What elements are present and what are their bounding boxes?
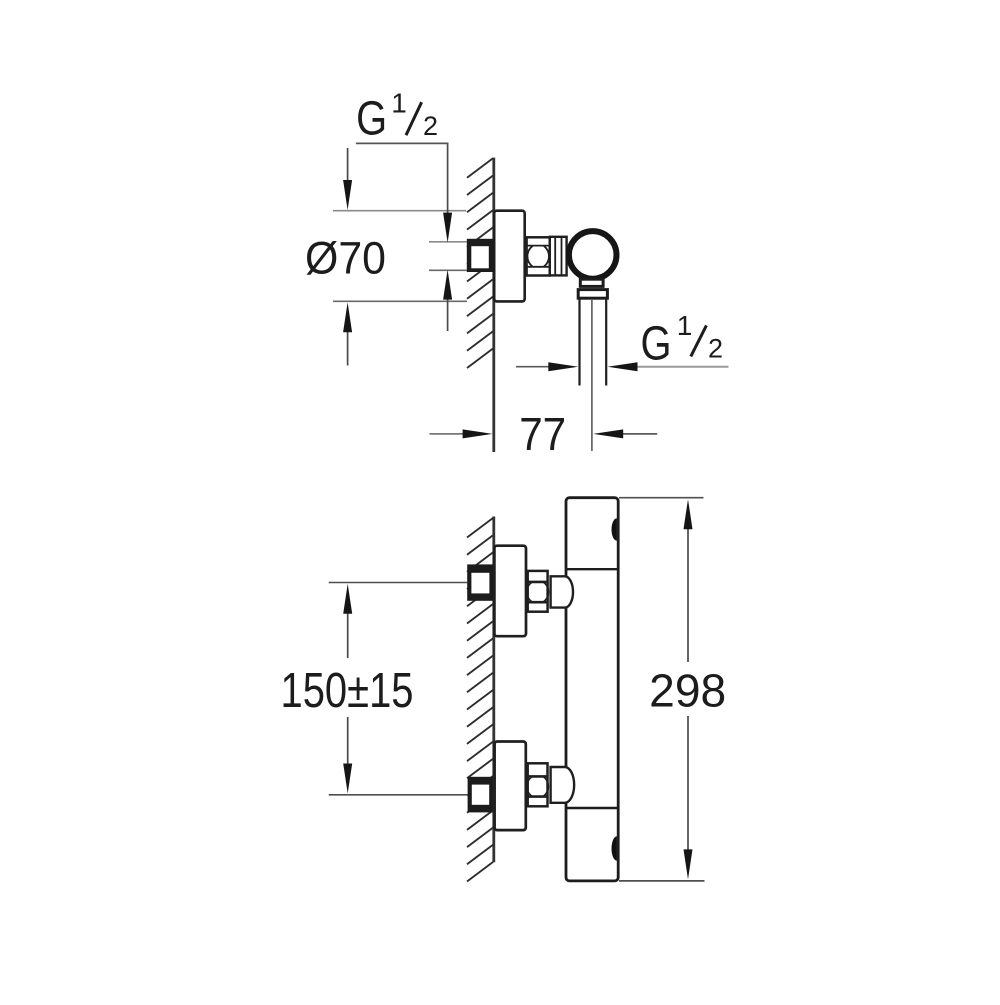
dimension 150 vertical line with arrows bbox=[347, 612, 349, 765]
extension line top of escutcheon (Ø70 top) bbox=[333, 210, 466, 212]
extension line 150 top bbox=[329, 582, 468, 584]
dimension Ø70 vertical line with arrows bbox=[347, 148, 349, 366]
label G 1/2 (top) bbox=[356, 87, 438, 145]
bottom connection: wall nipple nut bbox=[468, 777, 493, 813]
top connection: union nut bbox=[527, 571, 549, 612]
outlet flange upper band bbox=[580, 279, 603, 286]
svg-text:298: 298 bbox=[649, 664, 726, 716]
top connection: neck and dome bbox=[551, 576, 573, 607]
extension line nipple top (G1/2) bbox=[429, 241, 467, 243]
bottom connection: neck and dome bbox=[551, 767, 575, 803]
top connection: wall nipple nut bbox=[467, 564, 493, 600]
svg-text:150±15: 150±15 bbox=[281, 664, 414, 718]
dimension G1/2 vertical line with arrows (top) bbox=[447, 143, 449, 331]
extension line 298 top bbox=[619, 497, 704, 499]
wall hatching (top view) bbox=[467, 158, 493, 368]
dimension 298 vertical line with arrows bbox=[687, 529, 689, 850]
wall nipple nut (top view) bbox=[467, 239, 495, 272]
svg-text:2: 2 bbox=[708, 334, 723, 364]
valve body neck (top view) bbox=[550, 237, 567, 276]
body (front view) bbox=[566, 498, 618, 881]
svg-text:77: 77 bbox=[519, 408, 566, 460]
escutcheon (top view) bbox=[494, 211, 525, 302]
svg-text:1: 1 bbox=[391, 87, 407, 118]
extension line 150 bottom bbox=[329, 794, 468, 796]
outlet pipe walls bbox=[580, 298, 607, 385]
svg-text:Ø70: Ø70 bbox=[305, 232, 386, 283]
outlet flange lower band bbox=[578, 290, 607, 299]
label G 1/2 underline (top) bbox=[356, 142, 449, 144]
knob bump bottom (right edge) bbox=[612, 836, 617, 860]
wall line (top view) bbox=[492, 158, 495, 452]
body parting line bottom bbox=[566, 807, 618, 809]
dimension G1/2 (pipe) arrows and lines bbox=[516, 366, 550, 368]
extension line nipple bottom (G1/2) bbox=[429, 269, 467, 271]
extension line 298 bottom bbox=[619, 880, 705, 882]
bottom connection: escutcheon bbox=[495, 742, 526, 831]
wall line (front view) bbox=[492, 517, 495, 863]
knob circle (top view) bbox=[569, 231, 617, 279]
extension line bottom of escutcheon (Ø70 bottom) bbox=[333, 300, 467, 302]
svg-text:G: G bbox=[641, 317, 672, 370]
svg-text:1: 1 bbox=[677, 310, 693, 341]
svg-text:2: 2 bbox=[423, 111, 438, 141]
wall hatching (front view) bbox=[467, 518, 493, 882]
dimension 77 lines and arrows bbox=[430, 433, 464, 435]
union hex nut (top view) bbox=[527, 237, 550, 275]
body parting line top bbox=[566, 568, 618, 570]
bottom connection: union nut bbox=[527, 763, 549, 806]
top connection: escutcheon bbox=[494, 546, 526, 637]
label G 1/2 (pipe) bbox=[641, 310, 724, 370]
knob bump top (right edge) bbox=[612, 518, 617, 541]
svg-text:G: G bbox=[356, 93, 387, 146]
pipe centerline bbox=[591, 300, 593, 451]
